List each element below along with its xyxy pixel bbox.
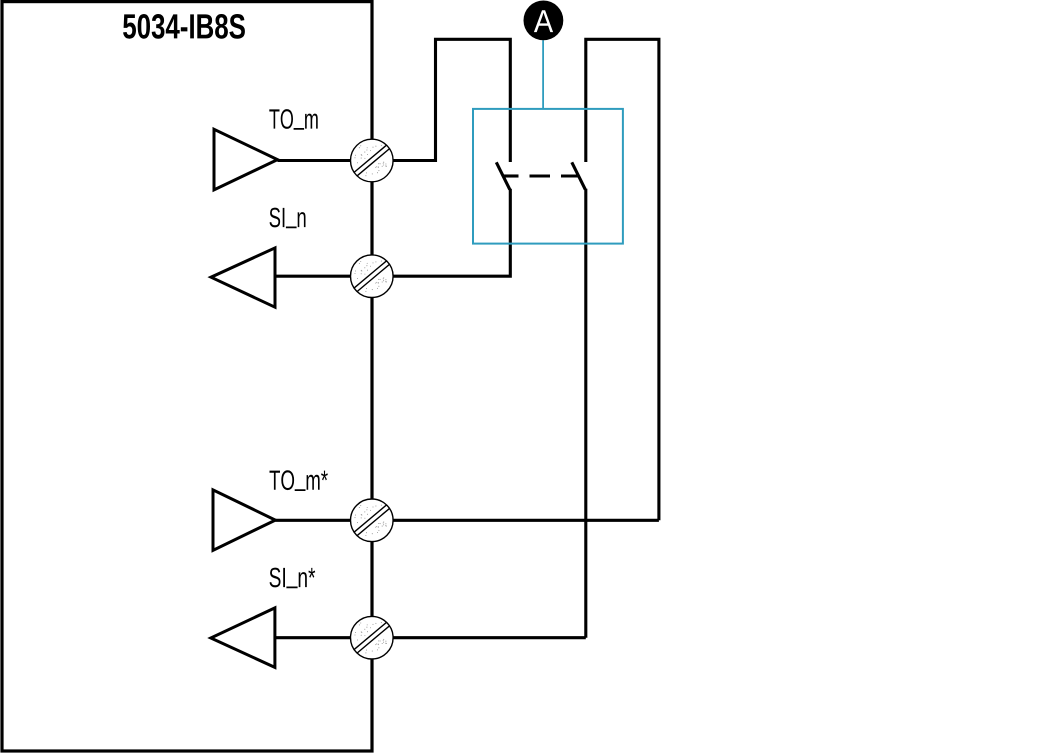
- buffer TO_m* (output driver triangle): [213, 490, 275, 550]
- label TO_m: [269, 109, 317, 130]
- terminal SI_n*: [351, 616, 394, 659]
- buffer TO_m (output driver triangle): [214, 129, 278, 190]
- wire TO_m row: [278, 39, 511, 162]
- label TO_m*: [270, 470, 328, 491]
- switch contact right (pole 2) blade: [572, 162, 586, 189]
- terminal SI_n: [351, 255, 394, 298]
- switch contact left (pole 1) blade: [496, 162, 510, 189]
- wire TO_m* row: [275, 519, 659, 522]
- callout balloon A: [524, 1, 564, 41]
- switch enclosure highlight box: [473, 109, 623, 244]
- buffer SI_n (input receiver triangle): [211, 248, 275, 307]
- label SI_n: [270, 208, 306, 229]
- wire right switch top: [586, 39, 659, 520]
- mechanical link (dashed): [504, 174, 578, 177]
- label SI_n*: [270, 568, 316, 589]
- wire SI_n row: [275, 189, 510, 276]
- buffer SI_n* (input receiver triangle): [211, 608, 275, 668]
- module 5034-IB8S enclosure box: [2, 2, 372, 751]
- wire SI_n* row: [275, 636, 586, 639]
- callout leader line A: [542, 40, 544, 109]
- wire right switch bottom: [584, 189, 587, 638]
- terminal TO_m*: [351, 499, 394, 542]
- terminal TO_m: [351, 139, 394, 182]
- module label 5034-IB8S: [123, 14, 245, 39]
